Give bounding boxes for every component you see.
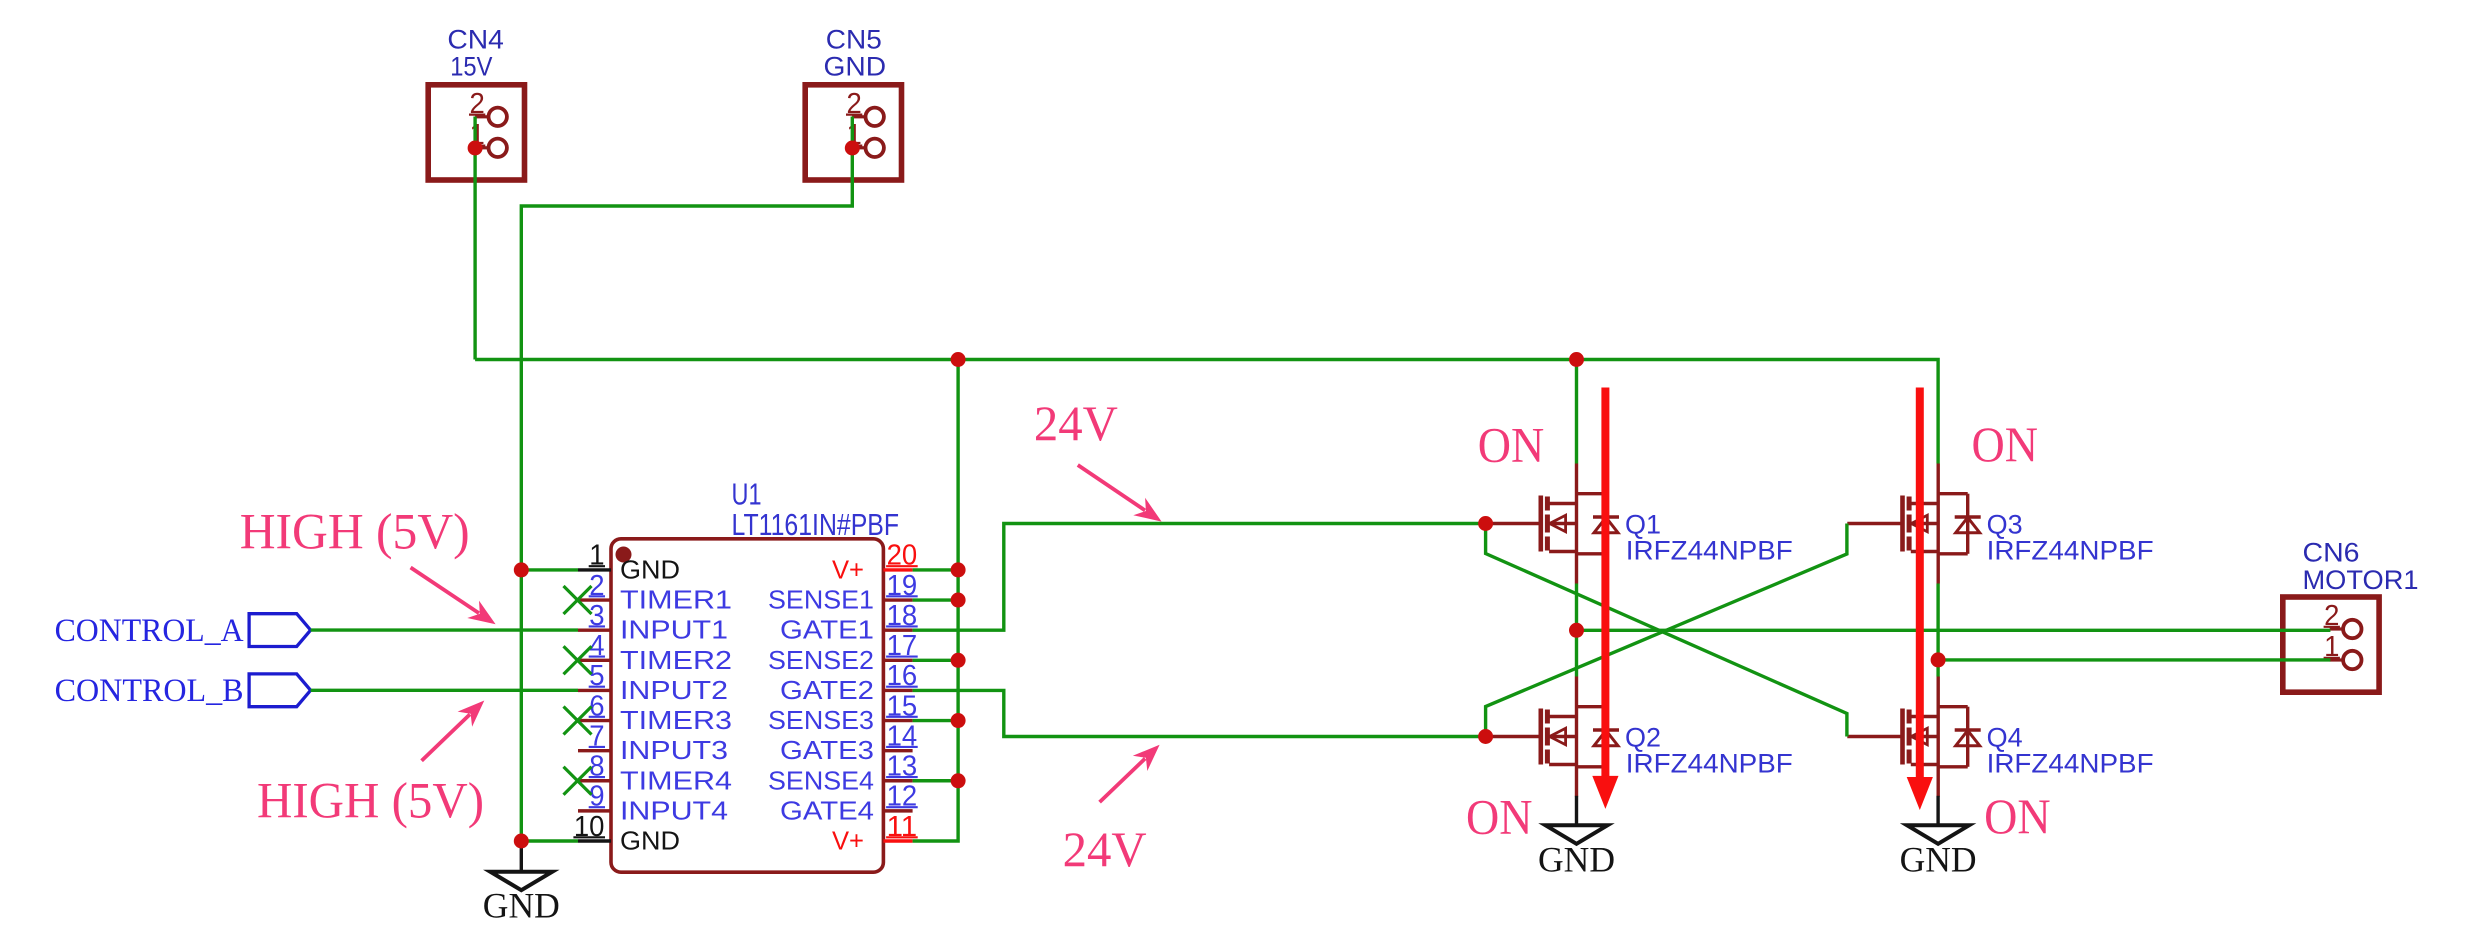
svg-text:GATE4: GATE4: [780, 795, 874, 825]
svg-text:GATE2: GATE2: [780, 675, 874, 705]
svg-text:CONTROL_A: CONTROL_A: [55, 613, 244, 649]
svg-text:INPUT4: INPUT4: [620, 795, 728, 825]
svg-text:IRFZ44NPBF: IRFZ44NPBF: [1987, 749, 2154, 779]
svg-text:SENSE2: SENSE2: [768, 645, 874, 675]
svg-text:24V: 24V: [1063, 821, 1147, 877]
svg-text:CN4: CN4: [447, 25, 504, 55]
svg-text:GND: GND: [1538, 839, 1615, 879]
svg-text:24V: 24V: [1034, 395, 1118, 451]
svg-text:MOTOR1: MOTOR1: [2303, 565, 2419, 595]
svg-text:TIMER4: TIMER4: [620, 765, 732, 795]
svg-text:GND: GND: [824, 52, 887, 82]
svg-text:INPUT3: INPUT3: [620, 735, 728, 765]
svg-text:ON: ON: [1984, 788, 2051, 844]
svg-text:SENSE4: SENSE4: [768, 765, 874, 795]
svg-text:GND: GND: [620, 555, 680, 585]
svg-text:HIGH (5V): HIGH (5V): [240, 504, 470, 560]
svg-text:ON: ON: [1478, 416, 1545, 472]
svg-text:15V: 15V: [450, 52, 492, 82]
svg-text:CN5: CN5: [826, 25, 882, 55]
svg-text:ON: ON: [1466, 788, 1533, 844]
svg-text:HIGH (5V): HIGH (5V): [257, 774, 484, 830]
svg-text:GATE1: GATE1: [780, 615, 874, 645]
svg-text:TIMER3: TIMER3: [620, 705, 732, 735]
svg-text:GND: GND: [483, 886, 560, 926]
svg-text:IRFZ44NPBF: IRFZ44NPBF: [1987, 536, 2154, 566]
svg-text:CN6: CN6: [2303, 537, 2360, 567]
svg-text:CONTROL_B: CONTROL_B: [55, 673, 244, 709]
svg-text:INPUT1: INPUT1: [620, 615, 728, 645]
svg-text:SENSE1: SENSE1: [768, 585, 874, 615]
svg-text:LT1161IN#PBF: LT1161IN#PBF: [732, 507, 900, 542]
svg-text:IRFZ44NPBF: IRFZ44NPBF: [1626, 749, 1793, 779]
svg-text:GND: GND: [620, 826, 680, 856]
svg-text:IRFZ44NPBF: IRFZ44NPBF: [1626, 536, 1793, 566]
svg-text:SENSE3: SENSE3: [768, 705, 874, 735]
svg-text:GND: GND: [1900, 839, 1977, 879]
svg-text:INPUT2: INPUT2: [620, 675, 728, 705]
svg-text:V+: V+: [832, 826, 864, 856]
svg-text:ON: ON: [1972, 416, 2039, 472]
svg-text:V+: V+: [832, 555, 864, 585]
svg-text:TIMER2: TIMER2: [620, 645, 732, 675]
svg-text:GATE3: GATE3: [780, 735, 874, 765]
svg-text:TIMER1: TIMER1: [620, 585, 732, 615]
